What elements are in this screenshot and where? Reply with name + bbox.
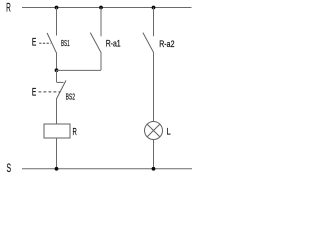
pushbutton BS1 (NO contact blade): [47, 33, 56, 52]
wire bottom rail S: [22, 168, 192, 170]
wire lamp to bottom rail: [153, 140, 155, 169]
wire BS2 upper stub: [56, 70, 58, 82]
svg-text:E: E: [32, 37, 36, 49]
wire BS1 to node A: [56, 52, 58, 70]
junction dot bottom rail / lamp branch: [152, 167, 156, 171]
svg-text:BS1: BS1: [61, 39, 70, 48]
wire R-a1 lower stub to node A wire: [100, 52, 102, 70]
dashed actuator link BS1: [39, 42, 51, 44]
junction dot top rail / R-a2 branch: [152, 6, 156, 10]
relay contact R-a2 (NO contact blade): [143, 33, 154, 53]
wire R-a2 to lamp L: [153, 52, 155, 122]
wire R-a1 upper stub: [100, 8, 102, 37]
lamp L (circle): [145, 122, 163, 140]
relay contact R-a1 (NO contact blade): [90, 33, 101, 53]
junction dot top rail / BS1 branch: [55, 6, 59, 10]
junction dot bottom rail / coil branch: [55, 167, 59, 171]
svg-text:R: R: [73, 127, 77, 138]
svg-text:L: L: [167, 127, 171, 137]
wire BS1 upper stub: [56, 8, 58, 36]
svg-text:S: S: [7, 161, 12, 175]
lamp L (X cross stroke 2): [147, 124, 160, 137]
dashed actuator link BS2: [39, 91, 61, 93]
svg-text:R-a1: R-a1: [106, 39, 121, 49]
svg-text:R: R: [6, 0, 11, 14]
wire R-a2 upper stub: [153, 8, 155, 37]
svg-text:R-a2: R-a2: [159, 39, 174, 50]
junction dot top rail / R-a1 branch: [99, 6, 103, 10]
wire BS2 to relay coil R: [56, 98, 58, 124]
junction dot node A: [55, 68, 59, 72]
relay coil R (rectangle): [44, 124, 70, 138]
svg-text:BS2: BS2: [66, 92, 76, 102]
svg-text:E: E: [32, 86, 36, 98]
wire top rail R: [22, 7, 192, 9]
wire node A to R-a1 branch bottom: [57, 69, 102, 71]
pushbutton BS2 (NC contact blade): [57, 80, 66, 98]
lamp L (X cross stroke 1): [147, 124, 160, 137]
pushbutton BS2 (NC contact fixed tick): [57, 81, 64, 83]
wire relay coil to bottom rail: [56, 138, 58, 169]
